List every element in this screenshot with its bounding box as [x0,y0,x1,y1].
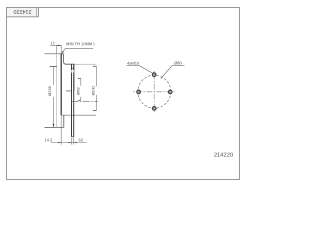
hat wall left lower [71,73,73,137]
svg-text:Ø142: Ø142 [91,85,96,96]
ring top edge + extension [45,53,64,55]
boss bottom edge on flange [71,67,75,69]
arrowhead 63 dim right [74,142,77,143]
dia 68 dim line [80,78,82,85]
12 dim extension right [60,45,62,53]
12 dim extension lines up [56,45,58,53]
ring right face (dark) [60,54,62,115]
step vertical [63,115,65,127]
bolt circle (dashed) [138,75,171,108]
dia142 tick top [93,65,97,67]
bolt hole E [168,90,172,94]
dia68 tick top [78,77,81,79]
dia 236 dimension line [53,66,55,85]
arrowhead 14.3 dim [58,142,61,143]
tick left of wall [66,90,71,92]
bolt hole hidden dash right [73,69,75,77]
arrowhead 12 dim right [59,45,62,46]
dia68 tick bottom [78,99,81,101]
svg-text:63: 63 [79,137,84,142]
svg-text:12: 12 [50,41,54,45]
drawing frame [7,8,240,180]
svg-text:MIN TH 10MM ): MIN TH 10MM ) [66,41,95,46]
title box top-left [7,8,39,17]
bolt holes [137,73,172,110]
dia142 tick bottom [93,109,97,111]
svg-text:214220: 214220 [214,153,233,159]
bolt hole S [152,107,156,111]
centerlines [133,70,177,114]
dimension lines, thin [50,45,98,145]
hat wall right lower [73,73,75,137]
centerline vertical [153,70,155,114]
underline 4xM10 [127,64,139,66]
dia68 dim line lower [80,97,82,101]
hat wall right [73,64,75,70]
dia 142 dim line [95,66,97,86]
arrowhead 63 dim left [69,142,72,143]
ring bottom edge + extension [45,126,64,128]
step edge + long extension right [61,114,96,116]
extension hat wall left [71,138,73,145]
flange face extension to dia142 dim [75,63,97,65]
ring left face (light) [56,54,58,128]
arrowhead note leader [61,51,64,54]
dia236 dim line lower [53,97,55,127]
svg-text:14.3: 14.3 [44,137,53,142]
leader 4xM10 [139,65,153,73]
note leader [61,48,65,53]
bottom extension lines [60,116,62,145]
svg-text:Ø80: Ø80 [174,60,182,65]
hat wall left [71,64,73,70]
extension hat wall right [73,138,75,145]
collar with fillet into flange face [64,54,75,64]
dia142 dim line lower [95,95,97,111]
svg-text:Ø68: Ø68 [76,87,81,95]
arrowhead 12 dim left [57,45,60,46]
arrowhead dia236 bottom [53,124,55,128]
bolt hole N [152,73,156,77]
leader dia80 [161,66,172,79]
svg-text:4xM10: 4xM10 [127,61,140,66]
pilot face (light) [74,64,76,91]
svg-text:Ø236: Ø236 [47,85,52,96]
note shelf [66,47,94,49]
12 dim line [50,44,61,46]
underline dia80 [172,65,185,67]
hat wall bottom close [72,136,74,138]
bottom dim line [51,142,87,144]
bolt hole hidden dashes [71,69,73,77]
T-bar tick [50,65,57,67]
bolt hole W [137,90,141,94]
svg-text:214220: 214220 [14,8,32,14]
centerline right [71,100,98,102]
centerline horizontal [133,91,177,93]
